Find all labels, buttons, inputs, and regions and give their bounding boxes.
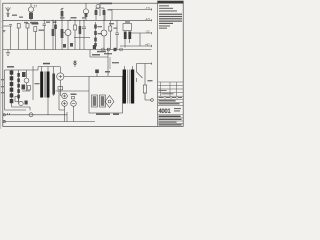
IF side stub [104,12,106,20]
border frame [3,3,183,126]
box top feed line [64,76,89,78]
divider chain R11 [17,70,20,104]
value label [24,22,28,23]
wire to -4.5 [120,19,152,21]
grid label [71,17,77,19]
interstage connector [90,48,108,76]
wire to -22 terminal [131,32,152,34]
antenna [6,7,11,16]
drop wire [109,57,111,69]
junction stub [66,112,68,122]
rectifier tube V5 [57,67,64,97]
svg-text:-: - [1,25,2,29]
cap block 2 [22,85,26,90]
IF top circle [96,5,100,9]
terminal label [1,79,4,80]
resistor R6 [109,20,112,49]
tube socket V6 [62,93,68,99]
bus blob 2 [70,43,73,47]
cap C3 [43,20,47,49]
bypass circle [24,78,29,83]
choke L5 [58,87,63,90]
bus socket b [107,48,110,51]
wire seg [74,37,90,39]
label [98,33,103,34]
terminal label [1,92,5,93]
junction dot [69,20,70,21]
label 500 [39,30,45,31]
wire across lower mid [55,90,89,92]
tube V1 [28,7,33,12]
wire end tick [151,19,153,21]
label 60 [105,71,110,73]
bus text [104,53,112,54]
main signal wire [3,19,120,21]
notes text lines [159,5,182,28]
audio transformer T4 [123,24,132,48]
value label [109,23,114,24]
t2 label [112,62,119,63]
cap C2 [9,25,12,50]
value label [30,22,38,24]
label [108,9,113,10]
filter cap C11 [100,95,106,107]
value label [46,22,50,23]
power transformer T2 [123,66,135,104]
resistor R2 [26,24,29,50]
tube socket V7 [62,101,68,122]
secondary winding L7 [52,67,55,97]
coil L3 [52,20,55,49]
terminal A [3,114,5,116]
switch SW2 [137,64,143,83]
label [12,15,17,16]
svg-text:+67: +67 [145,43,150,47]
detector blob V2 [83,4,88,21]
transformer T1 [33,67,60,115]
label [35,83,40,84]
power pack box [89,77,123,114]
ground symbol [6,50,10,56]
socket label [71,94,77,96]
terminal B [3,120,5,122]
net label [92,54,100,56]
vertical feed [139,33,141,46]
left rail [5,70,34,110]
resistor R4 [74,20,77,49]
pot R3 [34,27,37,50]
value label [125,21,130,22]
coil L4 [61,20,64,49]
divider chain R10 [10,70,14,107]
grid label [82,17,87,18]
line fuse F1 [137,62,152,100]
filter cap C10 [92,95,98,107]
pilot lamp [29,113,33,117]
svg-text:-7.5: -7.5 [145,6,150,10]
value label [53,22,57,23]
label [19,17,23,18]
AC plug terminal [151,99,154,102]
wire end tick [151,45,153,47]
coil L6 [79,20,82,49]
label 500 [32,23,39,25]
small res [28,86,31,91]
coupling cap C1 [7,15,9,16]
junction block [93,45,96,49]
rectifier bridge D1 [105,96,114,108]
B+ wire to -7.5 [112,9,152,11]
page left edge shadow [0,0,1,129]
IF transformer T3 [95,4,106,21]
cap C4 [82,20,86,49]
switch SW1 [74,60,77,67]
bus socket a [102,48,105,51]
wire end tick [151,8,153,10]
input stub 2 [3,25,9,27]
small parts above sockets [59,91,75,110]
bus socket c [114,48,117,51]
tube V4 [101,20,107,49]
RF coil L1 [29,4,33,21]
lower cluster parts [5,97,31,111]
ground bus [3,49,152,51]
junction dots [44,20,105,21]
cap C5 [115,20,119,49]
cap block [22,72,26,77]
top-right component cluster text [100,3,112,5]
right margin separator line [157,1,159,127]
cap C6 [54,20,57,49]
polarity ticks [8,113,10,115]
feed stub component [95,70,99,77]
resistor R1 [17,24,20,50]
revision table [158,82,184,96]
transformer T1 label [43,63,50,65]
svg-text:-4.5: -4.5 [145,17,150,21]
output label [96,114,110,115]
fuse label [148,80,153,81]
svg-text:-22: -22 [146,30,150,34]
bus label [97,51,106,53]
tube socket V8 [71,101,77,122]
wire to +67 terminal [120,45,152,47]
svg-text:-: - [1,19,2,23]
resistor chain R5 [94,22,97,50]
notes header bar [158,1,184,4]
label [98,26,103,27]
wire seg [22,66,33,100]
bus blob 1 [63,44,66,48]
label [60,17,65,18]
ground mark [3,31,6,32]
title block [158,96,184,123]
small blob [25,101,28,105]
bus socket d [120,48,123,51]
svg-text:4001: 4001 [158,109,171,115]
value label [114,28,118,29]
wire end tick [151,32,153,34]
bottom wire A [4,114,68,116]
terminal label [1,86,4,87]
svg-text:27: 27 [34,4,38,8]
label [7,66,14,68]
osc coil L2 with arrow [61,8,64,20]
tube V3 [63,20,71,49]
bottom wire B [4,121,96,123]
